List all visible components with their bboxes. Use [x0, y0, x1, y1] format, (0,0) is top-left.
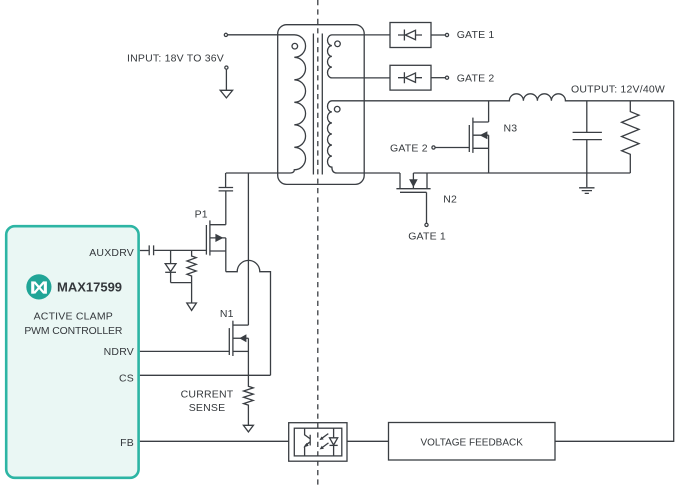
input terminal	[224, 33, 227, 36]
svg-text:GATE 1: GATE 1	[457, 29, 495, 41]
capacitor C2 output top wire	[586, 101, 588, 132]
gate 2 input terminal	[432, 146, 435, 149]
transistor N3	[469, 101, 488, 173]
wire feedback loop right	[555, 101, 674, 442]
svg-text:FB: FB	[120, 437, 134, 449]
svg-text:NDRV: NDRV	[104, 346, 134, 358]
svg-text:PWM CONTROLLER: PWM CONTROLLER	[24, 326, 122, 337]
diode D2	[398, 72, 422, 83]
capacitor C1 clamp top wire	[225, 173, 227, 187]
svg-text:P1: P1	[195, 209, 208, 221]
maxim logo	[26, 274, 51, 299]
ground arrow (AUXDRV network)	[187, 303, 197, 310]
ground arrow (current sense)	[243, 425, 253, 432]
transformer T1 secondary 2 dot	[334, 106, 340, 112]
gate drive box 2	[390, 65, 431, 90]
svg-text:OUTPUT: 12V/40W: OUTPUT: 12V/40W	[571, 84, 665, 96]
wire primary to N1 drain	[247, 173, 249, 325]
voltage feedback box	[389, 423, 556, 461]
wire P1 source with hop over	[226, 260, 271, 375]
wire optocoupler to voltage feedback box	[347, 440, 389, 442]
svg-text:ACTIVE CLAMP: ACTIVE CLAMP	[34, 310, 113, 322]
capacitor C2 plates	[573, 132, 602, 139]
optocoupler light arrows	[319, 434, 328, 450]
transistor N1	[229, 321, 248, 376]
wire AUXDRV pin	[140, 250, 149, 252]
MAX17599 controller box	[6, 226, 138, 478]
wire FB pin to optocoupler	[140, 440, 289, 442]
transformer T1 core line left	[312, 34, 314, 175]
svg-text:GATE 2: GATE 2	[457, 72, 495, 84]
optocoupler U2 inner box	[294, 428, 342, 456]
svg-text:AUXDRV: AUXDRV	[89, 247, 134, 259]
gate 1 input terminal	[425, 223, 428, 226]
input return terminal	[225, 66, 228, 69]
diode D1	[398, 30, 422, 41]
wire NDRV pin to N1 gate	[140, 350, 229, 352]
resistor R3 current sense	[244, 375, 254, 425]
transistor P1	[206, 191, 225, 272]
gate 2 output terminal	[445, 76, 448, 79]
transformer T1 outline	[278, 25, 365, 185]
svg-text:CURRENT: CURRENT	[181, 388, 234, 400]
wire gate drive 1 to terminal	[431, 34, 445, 36]
gate 1 output terminal	[445, 33, 448, 36]
svg-text:GATE 2: GATE 2	[390, 142, 428, 154]
transformer T1 secondary 1 winding + wire to gate drive 1	[328, 35, 391, 78]
svg-text:N1: N1	[220, 308, 234, 320]
wire C3 to P1 gate	[154, 249, 206, 251]
svg-text:MAX17599: MAX17599	[57, 280, 122, 295]
resistor R2 branch	[187, 250, 196, 282]
transformer T1 secondary 2 winding	[327, 101, 400, 173]
wire D3 down	[170, 272, 172, 282]
optocoupler U2 outer box	[289, 423, 347, 462]
resistor R4 load	[622, 101, 639, 173]
capacitor C1 clamp plates	[219, 188, 234, 191]
svg-text:VOLTAGE FEEDBACK: VOLTAGE FEEDBACK	[420, 437, 523, 448]
capacitor C3 (gate coupling)	[149, 245, 153, 255]
diode D3 branch wire	[170, 250, 172, 263]
svg-text:CS: CS	[119, 373, 134, 385]
svg-text:N2: N2	[443, 193, 457, 205]
transformer T1 primary dot	[292, 43, 298, 49]
transistor N2	[396, 173, 430, 223]
wire input + transformer T1 primary winding	[226, 35, 306, 173]
wire D3/R2 join	[171, 282, 192, 284]
capacitor C2 bottom wire	[586, 140, 588, 188]
svg-text:GATE 1: GATE 1	[408, 231, 446, 243]
optocoupler LED	[330, 428, 338, 456]
svg-text:INPUT: 18V TO 36V: INPUT: 18V TO 36V	[127, 53, 224, 65]
transformer T1 secondary 1 dot	[335, 41, 341, 47]
svg-text:SENSE: SENSE	[189, 402, 226, 414]
svg-text:N3: N3	[504, 123, 518, 135]
input return wire	[225, 70, 227, 91]
isolation boundary dashed line	[317, 0, 319, 485]
input return arrow	[220, 90, 232, 98]
transformer T1 core line right	[321, 34, 323, 175]
diode D3	[165, 264, 176, 272]
wire secondary output rail with inductor L1	[340, 94, 674, 101]
wire gate2 terminal to N3 gate	[436, 147, 470, 149]
wire to ground arrow	[191, 283, 193, 303]
wire gate drive 2 to terminal	[431, 77, 445, 79]
wire CS pin	[140, 374, 271, 376]
optocoupler phototransistor	[303, 428, 310, 456]
gate drive box 1	[390, 23, 431, 48]
wire secondary ground rail right	[413, 172, 630, 174]
ground (earth) output	[579, 188, 594, 194]
